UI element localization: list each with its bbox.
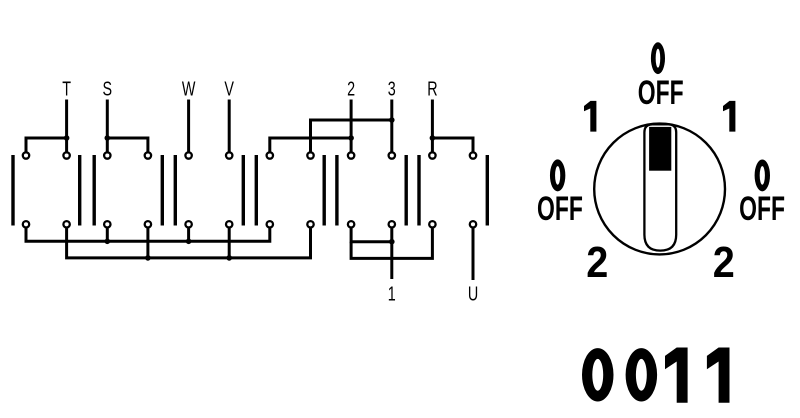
terminal circle col7 bottom bbox=[267, 221, 273, 227]
terminal circle col3 bottom bbox=[104, 221, 110, 227]
terminal circle col9 bottom bbox=[348, 221, 354, 227]
terminal circle col11 bottom bbox=[429, 221, 435, 227]
junction dot bus A col3 bbox=[105, 239, 111, 245]
terminal circle col10 top bbox=[389, 152, 395, 158]
svg-text:V: V bbox=[224, 77, 234, 100]
svg-text:T: T bbox=[62, 77, 71, 100]
label 1 upper right bbox=[723, 101, 735, 132]
contact bar pair cols 2-3 right bbox=[92, 155, 95, 226]
terminal circle col9 top bbox=[348, 152, 354, 158]
svg-text:1: 1 bbox=[388, 282, 396, 305]
junction dot wire 2 bbox=[348, 135, 354, 141]
wire bottom bus A bbox=[26, 229, 270, 242]
svg-text:OFF: OFF bbox=[638, 75, 684, 113]
terminal circle col6 bottom bbox=[226, 221, 232, 227]
terminal circle col8 bottom bbox=[307, 221, 313, 227]
junction dot bus B col4 bbox=[145, 255, 151, 261]
terminal circle col7 top bbox=[267, 152, 273, 158]
terminal circle col5 bottom bbox=[185, 221, 191, 227]
svg-text:W: W bbox=[182, 77, 196, 100]
terminal circle col1 bottom bbox=[23, 221, 29, 227]
terminal circle col8 top bbox=[307, 152, 313, 158]
wire R lead bbox=[431, 100, 434, 153]
junction dot R bracket bbox=[430, 135, 436, 141]
contact bar pair cols 8-9 right bbox=[335, 155, 338, 226]
label 0 right bbox=[755, 159, 770, 191]
contact bar pair cols 4-5 right bbox=[174, 155, 177, 226]
label 0 top bbox=[651, 42, 665, 74]
wire T lead bbox=[65, 100, 68, 153]
wire link col 9 to col 10 bbox=[351, 229, 392, 242]
terminal circle col4 bottom bbox=[145, 221, 151, 227]
wire S lead bbox=[106, 100, 109, 153]
junction dot T bracket bbox=[64, 135, 70, 141]
wire bus B tap col 4 bbox=[146, 229, 149, 258]
svg-text:2: 2 bbox=[713, 237, 735, 286]
wire bus B tap col 6 bbox=[228, 229, 231, 258]
terminal circle col6 top bbox=[226, 152, 232, 158]
contact bar pair cols 2-3 left bbox=[78, 155, 81, 226]
contact bar far right bbox=[486, 155, 489, 226]
junction dot link col10 bbox=[389, 239, 395, 245]
contact bar pair cols 6-7 left bbox=[242, 155, 245, 226]
svg-text:2: 2 bbox=[347, 77, 355, 100]
wire V lead bbox=[228, 100, 231, 153]
wire W lead bbox=[187, 100, 190, 153]
junction dot bus A col5 bbox=[186, 239, 192, 245]
contact bar pair cols 4-5 left bbox=[161, 155, 164, 226]
svg-text:R: R bbox=[427, 77, 437, 100]
contact bar far left bbox=[11, 155, 14, 226]
switch type number 0011 bbox=[582, 348, 730, 403]
wire T bracket to terminal 1 bbox=[26, 138, 67, 152]
terminal circle col4 top bbox=[145, 152, 151, 158]
wire R bracket to terminal 12 bbox=[432, 138, 473, 152]
contact bar pair cols 8-9 left bbox=[323, 155, 326, 226]
contact bar pair cols 6-7 right bbox=[255, 155, 258, 226]
svg-text:S: S bbox=[103, 77, 113, 100]
wire 2 branch to terminal 7 bbox=[270, 138, 351, 152]
wire bottom bus D col 9 to col 11 bbox=[351, 229, 432, 259]
wire S bracket to terminal 4 bbox=[107, 138, 148, 152]
svg-text:2: 2 bbox=[586, 237, 608, 286]
label 1 upper left bbox=[584, 101, 596, 132]
wire bottom bus B bbox=[67, 229, 311, 258]
terminal circle col12 bottom bbox=[470, 221, 476, 227]
terminal circle col3 top bbox=[104, 152, 110, 158]
label 0 left bbox=[550, 159, 565, 191]
svg-text:OFF: OFF bbox=[537, 190, 583, 228]
junction dot S bracket bbox=[105, 135, 111, 141]
wire bus A tap col 5 bbox=[187, 229, 190, 242]
svg-text:3: 3 bbox=[388, 77, 396, 100]
terminal circle col1 top bbox=[23, 152, 29, 158]
terminal circle col2 bottom bbox=[63, 221, 69, 227]
terminal circle col5 top bbox=[185, 152, 191, 158]
junction dot wire 3 bbox=[389, 117, 395, 123]
rotary switch pointer black mark bbox=[649, 127, 671, 171]
rotary switch body circle bbox=[594, 124, 725, 255]
wire lead 1 bbox=[390, 229, 393, 280]
contact bar pair cols 10-11 left bbox=[405, 155, 408, 226]
terminal circle col12 top bbox=[470, 152, 476, 158]
wire 2 lead bbox=[350, 100, 353, 153]
wire lead U bbox=[472, 229, 475, 281]
terminal circle col2 top bbox=[63, 152, 69, 158]
wire bus A tap col 3 bbox=[106, 229, 109, 242]
junction dot bus B col6 bbox=[226, 255, 232, 261]
svg-text:OFF: OFF bbox=[739, 191, 785, 229]
wire 3 lead bbox=[390, 100, 393, 153]
wire 3 branch to terminal 8 bbox=[311, 120, 392, 152]
terminal circle col11 top bbox=[429, 152, 435, 158]
contact bar pair cols 10-11 right bbox=[417, 155, 420, 226]
svg-text:U: U bbox=[468, 282, 478, 305]
terminal circle col10 bottom bbox=[389, 221, 395, 227]
